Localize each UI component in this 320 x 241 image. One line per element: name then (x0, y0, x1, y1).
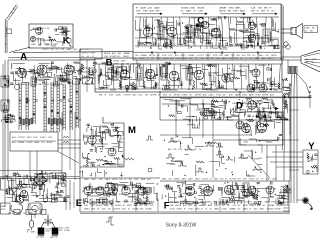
left box2 parts (2, 99, 9, 112)
header arrows (137, 13, 278, 15)
svg-text:E: E (76, 198, 82, 209)
sync cluster wiring (199, 97, 288, 120)
power leads (32, 187, 56, 230)
label: CRT (305, 58, 318, 64)
left tuner tube V11b (14, 84, 19, 89)
label: bottom tube types (84, 201, 154, 211)
svg-text:12AT7: 12AT7 (246, 103, 251, 106)
wire drop3 (74, 112, 76, 180)
tube V10 UHF converter (36, 28, 43, 35)
svg-text:OUTPUT: OUTPUT (124, 95, 133, 97)
balun box (80, 49, 102, 59)
tube V13 local osc (64, 65, 74, 75)
section A box (8, 58, 95, 178)
wire C-B link (136, 60, 138, 64)
waveform w2 (185, 145, 194, 150)
label: K parts (31, 43, 58, 46)
left terminal box1 (1, 76, 9, 87)
svg-text:6AU8: 6AU8 (305, 58, 309, 61)
CRT anode cap (302, 197, 313, 210)
svg-text:VIDEO: VIDEO (123, 56, 129, 58)
svg-text:12AT7: 12AT7 (31, 43, 36, 46)
tuner IF can T0b (54, 77, 59, 86)
wire drop4 (61, 112, 63, 180)
yoke components (282, 78, 291, 98)
svg-text:VIDEO: VIDEO (249, 179, 255, 181)
svg-text:60~: 60~ (227, 205, 230, 207)
label: battery right (59, 228, 71, 232)
svg-text:AGC: AGC (12, 136, 17, 139)
svg-text:OUTPUT: OUTPUT (197, 55, 205, 57)
bus B bottom (95, 88, 282, 90)
svg-text:2SA12: 2SA12 (103, 204, 108, 207)
tube V28 (248, 186, 256, 194)
svg-text:KEYED: KEYED (311, 59, 318, 61)
bus mid vertical (159, 92, 161, 97)
waveform w4 (238, 154, 247, 158)
svg-text:AGC: AGC (170, 57, 175, 60)
svg-text:4.5MC: 4.5MC (116, 95, 122, 97)
rectifier bridge D1-D4 (33, 173, 47, 187)
svg-text:DET: DET (312, 28, 315, 30)
svg-text:KEYED: KEYED (112, 179, 119, 181)
IF transformer T4 (186, 67, 192, 80)
tube V15 sync amp (259, 84, 267, 92)
svg-text:SYNC: SYNC (216, 95, 222, 97)
wire right column (289, 97, 291, 181)
capacitor C41 (244, 126, 245, 129)
svg-text:115V: 115V (136, 11, 141, 13)
svg-text:OUTPUT: OUTPUT (82, 53, 90, 55)
C wiring (136, 16, 279, 49)
svg-text:60~: 60~ (263, 205, 266, 207)
svg-text:60~: 60~ (32, 84, 35, 86)
svg-text:6AU8: 6AU8 (225, 54, 230, 57)
svg-text:60~: 60~ (305, 31, 308, 33)
waveform w8 (178, 161, 187, 166)
drops to F band (267, 145, 284, 181)
coil L21 (32, 29, 38, 30)
svg-text:5-2B: 5-2B (251, 8, 256, 10)
svg-text:2ND: 2ND (117, 53, 121, 55)
horiz bus1 (160, 119, 290, 121)
tube V8b audio drv (211, 28, 221, 38)
svg-text:B+: B+ (185, 149, 187, 151)
svg-text:6AU8: 6AU8 (141, 178, 145, 181)
resistor R14 (193, 80, 195, 88)
ground g2 (173, 51, 176, 54)
horiz bus2 (160, 134, 252, 136)
svg-text:OSC: OSC (258, 8, 263, 10)
IF transformer T21 (62, 27, 67, 35)
svg-text:SOUND: SOUND (145, 208, 152, 210)
capacitor C63 (226, 42, 227, 45)
svg-text:OUTPUT: OUTPUT (46, 229, 53, 231)
svg-text:5-2B: 5-2B (147, 8, 152, 10)
svg-text:SYNC: SYNC (143, 11, 149, 13)
tube V32 horiz out (258, 124, 267, 133)
svg-text:12AT7: 12AT7 (214, 204, 219, 207)
mid cluster wiring (164, 99, 200, 128)
svg-text:SYNC: SYNC (162, 55, 168, 57)
svg-text:AMPL: AMPL (162, 178, 167, 181)
resistor Rz2 (63, 141, 69, 143)
svg-text:6AU8: 6AU8 (240, 10, 246, 13)
section M border (80, 117, 124, 167)
svg-text:1ST: 1ST (194, 149, 197, 151)
interconnect h1 (58, 140, 81, 148)
output transformer T10 (243, 183, 249, 196)
svg-text:OSC: OSC (226, 202, 231, 204)
svg-text:3RD: 3RD (99, 95, 103, 97)
svg-text:AGC: AGC (183, 204, 188, 207)
svg-text:4.5MC: 4.5MC (189, 8, 195, 10)
svg-text:SYNC: SYNC (238, 202, 244, 204)
svg-text:B+: B+ (125, 179, 127, 181)
power choke L52 (18, 195, 25, 196)
C box band line (133, 51, 281, 53)
tube V5b AGC amp (252, 69, 260, 77)
svg-text:12AT7: 12AT7 (253, 201, 258, 204)
svg-text:2SA12: 2SA12 (214, 207, 219, 210)
horiz osc wiring (244, 113, 282, 142)
svg-text:AGC: AGC (102, 207, 107, 210)
height pot VR2 (148, 168, 152, 172)
svg-text:LINEAR: LINEAR (123, 52, 130, 55)
label: C header col3 (219, 7, 246, 13)
D box edge double (160, 98, 310, 178)
svg-text:B+: B+ (128, 208, 130, 210)
pulse wfm d4 (216, 143, 223, 147)
label: wfm notes (168, 148, 202, 151)
svg-text:VIDEO: VIDEO (177, 208, 183, 210)
svg-text:6BQ7A: 6BQ7A (149, 54, 156, 57)
coil cluster bank1 (20, 118, 33, 125)
left fuse box (1, 178, 12, 190)
battery base BT2 (52, 235, 58, 237)
yoke winding DY (288, 67, 297, 74)
tube V19 vert mult (108, 148, 116, 156)
svg-text:12AT7: 12AT7 (186, 10, 193, 13)
section D border (160, 97, 310, 120)
coil cluster bank2 (48, 118, 63, 125)
svg-text:SYNC: SYNC (29, 213, 35, 215)
svg-text:AGC: AGC (133, 94, 138, 97)
svg-text:115V: 115V (163, 95, 168, 97)
svg-text:12AT7: 12AT7 (254, 57, 259, 60)
label: above band row (162, 178, 278, 181)
svg-text:KEYED: KEYED (123, 202, 130, 204)
C drops (139, 17, 272, 46)
svg-text:KEYED: KEYED (174, 95, 181, 97)
svg-text:2SA12: 2SA12 (186, 201, 191, 204)
svg-text:SYNC: SYNC (242, 95, 248, 97)
svg-text:LINEAR: LINEAR (188, 54, 195, 57)
label: K header (33, 27, 50, 30)
svg-text:1ST: 1ST (56, 49, 59, 51)
svg-text:SOUND: SOUND (64, 230, 71, 232)
svg-text:60~: 60~ (256, 179, 259, 181)
svg-text:12AT7: 12AT7 (259, 207, 264, 210)
battery terminal BT2 (52, 228, 58, 235)
svg-text:4.5MC: 4.5MC (115, 202, 121, 204)
svg-text:B+: B+ (28, 84, 30, 86)
resistor R64 (230, 36, 232, 43)
svg-text:VERT: VERT (27, 137, 33, 139)
fuse F1 (29, 220, 33, 227)
svg-text:DET: DET (310, 31, 313, 33)
label: B note (114, 60, 130, 66)
tube V5 video amp (222, 74, 230, 82)
earphone jack J1 (286, 45, 290, 49)
bottom wiring 2 (162, 181, 291, 205)
svg-text:6AU8: 6AU8 (141, 7, 147, 10)
pulse wfm m1 (146, 136, 153, 140)
IF transformer T2 (136, 67, 142, 80)
tube V12 mixer (37, 65, 47, 75)
tube V17 AGC keyer (206, 108, 214, 116)
svg-text:VERT: VERT (79, 49, 83, 51)
svg-text:2SA12: 2SA12 (258, 54, 263, 57)
tube V9a (248, 22, 256, 30)
svg-text:12AT7: 12AT7 (53, 43, 58, 46)
svg-text:LINEAR: LINEAR (229, 207, 236, 210)
vert osc wiring (83, 123, 124, 167)
svg-text:2SA12: 2SA12 (38, 83, 43, 86)
tube V9b audio out (248, 34, 256, 42)
tube V14 sync sep (247, 84, 255, 92)
left cluster (1, 114, 15, 123)
resistor R13 (168, 80, 170, 88)
label: B header (104, 52, 130, 58)
note table lines (12, 136, 53, 144)
terminal strip ticks (283, 190, 289, 211)
K wiring (30, 27, 71, 47)
svg-text:SOUND: SOUND (267, 208, 274, 210)
svg-text:B+: B+ (103, 202, 105, 204)
tube V10b osc (30, 36, 35, 41)
tube V1 1st IF (120, 70, 130, 80)
svg-text:VIDEO: VIDEO (272, 179, 278, 181)
label: C bottom band (135, 54, 277, 60)
svg-text:12AT7: 12AT7 (253, 103, 258, 106)
svg-text:LINEAR: LINEAR (18, 141, 25, 144)
junction k1 (28, 47, 29, 48)
capacitor C13 (179, 84, 182, 85)
yoke cable (291, 74, 310, 204)
capacitor C64 (247, 44, 248, 47)
battery base BT1 (38, 235, 44, 237)
label: C header col1 (136, 7, 160, 13)
wire to speaker (281, 29, 293, 33)
label: tuner (12, 83, 65, 86)
junction b2 (239, 91, 240, 92)
capacitor C11 (129, 84, 132, 85)
svg-text:SYNC: SYNC (266, 179, 271, 181)
svg-text:12AT7: 12AT7 (188, 178, 193, 181)
svg-text:B+: B+ (37, 237, 39, 239)
svg-text:SYNC: SYNC (170, 208, 176, 210)
waveform w3 (205, 142, 214, 146)
label: bottom tube types 2 (170, 201, 284, 211)
wire antenna bus (13, 52, 133, 53)
svg-text:OSC: OSC (139, 205, 144, 207)
power transformer T51 (28, 203, 42, 214)
svg-text:SYNC: SYNC (188, 208, 194, 210)
tube V29 (266, 186, 274, 194)
resistor R53 (124, 158, 134, 160)
svg-text:KEYED: KEYED (262, 95, 269, 97)
bus C top (135, 16, 279, 18)
speaker SP (291, 24, 303, 39)
horiz osc box (239, 112, 283, 145)
resistor R63 (179, 38, 181, 45)
fine tuning line (2, 64, 4, 180)
tube V31 horiz osc (242, 124, 251, 133)
svg-text:VIDEO: VIDEO (46, 231, 52, 233)
label: under C (196, 24, 204, 27)
diode cluster (43, 216, 53, 226)
svg-text:6AU8: 6AU8 (154, 7, 160, 10)
capacitor C65 (239, 30, 242, 31)
resistor R62 (163, 45, 170, 47)
wire drop5 (69, 112, 71, 170)
sawtooth d1 (230, 108, 237, 113)
HV box Y (303, 150, 318, 174)
svg-text:LINEAR: LINEAR (140, 54, 147, 57)
svg-text:HORIZ: HORIZ (47, 142, 54, 144)
svg-text:AMPL: AMPL (235, 7, 241, 10)
svg-text:B+: B+ (261, 202, 263, 204)
diode arrows (256, 107, 279, 118)
svg-text:HORIZ: HORIZ (253, 107, 258, 109)
svg-text:M: M (128, 125, 136, 136)
label: battery under2 (51, 236, 57, 239)
capacitor C42 (268, 116, 271, 117)
svg-text:AGC: AGC (194, 204, 199, 207)
volume control VR1 (284, 42, 288, 46)
wire to anode (297, 199, 302, 201)
tube V50 rect (20, 190, 27, 197)
waveform w7 (166, 154, 175, 158)
svg-text:KEYED: KEYED (115, 205, 122, 207)
label: bus note (42, 48, 89, 51)
label: B tube types (99, 94, 275, 97)
svg-text:B+: B+ (123, 205, 125, 207)
waveform w9 (196, 168, 204, 172)
svg-text:VIDEO: VIDEO (59, 84, 65, 86)
cable ties (289, 110, 299, 170)
note table box (10, 132, 58, 151)
left box1 parts (2, 76, 9, 86)
label: C header col2 (181, 7, 205, 13)
svg-text:LINEAR: LINEAR (268, 204, 275, 207)
svg-text:SYNC: SYNC (195, 208, 201, 210)
wire drop1 (29, 151, 31, 177)
ground g3 (220, 51, 223, 54)
ground g4 (256, 51, 259, 54)
svg-text:B+: B+ (225, 179, 227, 181)
svg-text:2SA12: 2SA12 (105, 178, 110, 181)
tube V6 sound IF (143, 27, 153, 37)
svg-text:OUTPUT: OUTPUT (113, 208, 121, 210)
svg-text:115V: 115V (109, 95, 114, 97)
terminal box row3 (41, 210, 46, 215)
tube V30 horiz AFC (236, 121, 244, 129)
C band dividers (158, 53, 258, 60)
svg-text:AGC: AGC (203, 94, 208, 97)
D right edge (283, 95, 285, 150)
svg-text:OUTPUT: OUTPUT (229, 179, 236, 181)
AC terminal box (1, 203, 11, 214)
resistor Rz1 (63, 136, 69, 138)
svg-text:12AT7: 12AT7 (91, 178, 96, 181)
antenna coil L1 (11, 63, 12, 69)
cable components (308, 86, 311, 108)
svg-text:DET: DET (238, 179, 241, 181)
junction b3 (79, 119, 80, 120)
resistor R15 (218, 80, 220, 88)
label: battery under1 (37, 237, 44, 239)
A-B link wires (80, 60, 95, 92)
svg-text:4.5MC: 4.5MC (134, 179, 140, 181)
svg-text:AMPL: AMPL (35, 141, 40, 144)
wire right edge of C (281, 4, 283, 64)
capacitor C14 (204, 84, 207, 85)
resistor R65 (237, 21, 244, 23)
resistor R41 (246, 119, 254, 121)
tube V23 (122, 187, 130, 195)
svg-text:6BQ7A: 6BQ7A (104, 52, 111, 55)
resistor R21 (50, 39, 56, 41)
svg-text:6AU8: 6AU8 (67, 48, 71, 51)
svg-text:SYNC: SYNC (143, 202, 149, 204)
svg-text:K: K (63, 36, 70, 47)
electrolytic C53 (22, 184, 26, 188)
svg-text:SYNC: SYNC (90, 53, 96, 55)
svg-text:SOUND: SOUND (8, 213, 15, 215)
resistor R52 (96, 159, 104, 161)
svg-text:60~: 60~ (253, 55, 256, 57)
waveform w6 (106, 217, 114, 225)
svg-text:OUTPUT: OUTPUT (244, 202, 252, 204)
svg-text:AGC: AGC (12, 141, 17, 144)
resistor R43 (285, 100, 287, 108)
D lower wiring (164, 136, 262, 176)
svg-text:SYNC: SYNC (228, 8, 234, 10)
svg-text:DET: DET (41, 237, 44, 239)
bus B top (95, 63, 282, 65)
capacitor C21 (55, 28, 56, 31)
resistor R44 (196, 161, 204, 163)
tuner IF can T0 (31, 77, 36, 86)
svg-text:SYNC: SYNC (271, 202, 277, 204)
svg-text:VIDEO: VIDEO (180, 55, 186, 57)
svg-text:HORIZ: HORIZ (27, 142, 34, 144)
capacitor C51 (106, 162, 109, 163)
svg-text:AMPL: AMPL (22, 83, 27, 86)
svg-text:2SA12: 2SA12 (84, 178, 89, 181)
svg-text:SOUND: SOUND (246, 107, 253, 109)
tube V18 vert osc (88, 136, 96, 144)
svg-text:6BQ7A: 6BQ7A (108, 201, 115, 204)
peaking coil L5 (208, 66, 217, 67)
svg-text:6AU8: 6AU8 (195, 178, 199, 181)
svg-text:6AU8: 6AU8 (249, 94, 254, 97)
resistor R61 (138, 43, 145, 45)
channel switch banks S1 (19, 80, 78, 132)
svg-text:VIDEO: VIDEO (205, 55, 211, 57)
